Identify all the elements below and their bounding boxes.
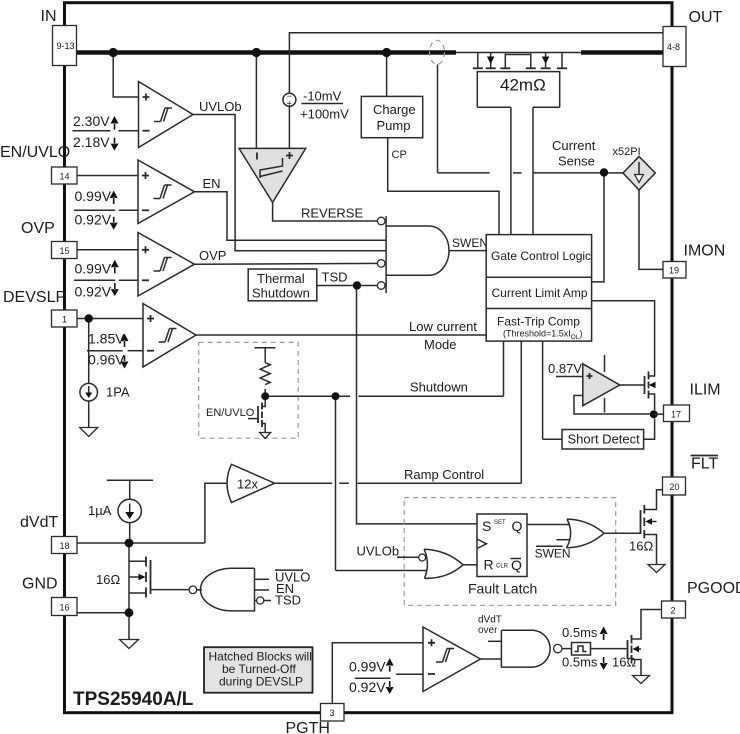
svg-text:0.92V: 0.92V xyxy=(349,679,386,695)
svg-text:UVLOb: UVLOb xyxy=(199,99,242,114)
svg-text:CLR: CLR xyxy=(496,564,509,570)
svg-text:Q: Q xyxy=(512,518,523,534)
svg-text:TSD: TSD xyxy=(322,270,348,285)
svg-text:Fault Latch: Fault Latch xyxy=(468,581,537,597)
svg-text:SWEN: SWEN xyxy=(452,236,488,250)
svg-text:-10mV: -10mV xyxy=(303,89,342,104)
svg-text:EN/UVLO: EN/UVLO xyxy=(206,407,255,419)
svg-text:SET: SET xyxy=(494,520,506,526)
svg-text:DEVSLP: DEVSLP xyxy=(3,289,66,306)
svg-text:IN: IN xyxy=(41,8,57,25)
svg-text:0.5ms: 0.5ms xyxy=(562,655,598,670)
svg-text:0.92V: 0.92V xyxy=(75,283,112,299)
svg-text:Short Detect: Short Detect xyxy=(568,432,641,447)
svg-text:FLT: FLT xyxy=(691,456,718,473)
svg-text:20: 20 xyxy=(670,482,680,492)
svg-text:CP: CP xyxy=(392,149,407,161)
svg-text:OUT: OUT xyxy=(689,9,723,26)
svg-text:PGTH: PGTH xyxy=(286,720,330,734)
svg-text:EN/UVLO: EN/UVLO xyxy=(0,144,70,161)
svg-text:2: 2 xyxy=(671,606,676,616)
svg-text:1: 1 xyxy=(62,315,67,325)
svg-text:Fast-Trip Comp: Fast-Trip Comp xyxy=(497,315,580,329)
svg-text:18: 18 xyxy=(60,541,70,551)
svg-text:1PA: 1PA xyxy=(106,385,130,400)
svg-text:Mode: Mode xyxy=(424,337,457,352)
svg-text:16Ω: 16Ω xyxy=(96,572,120,587)
svg-text:15: 15 xyxy=(60,246,70,256)
svg-text:0.99V: 0.99V xyxy=(349,659,386,675)
svg-text:OVP: OVP xyxy=(21,220,55,237)
svg-text:9-13: 9-13 xyxy=(57,41,75,51)
svg-text:16Ω: 16Ω xyxy=(629,539,653,554)
svg-text:over: over xyxy=(478,625,498,636)
svg-text:+100mV: +100mV xyxy=(300,107,349,122)
svg-text:Thermal: Thermal xyxy=(257,271,305,286)
svg-text:EN: EN xyxy=(203,176,221,191)
svg-text:0.99V: 0.99V xyxy=(75,261,112,277)
svg-text:2.30V: 2.30V xyxy=(73,113,110,129)
svg-text:17: 17 xyxy=(671,410,681,420)
svg-text:dVdT: dVdT xyxy=(478,615,502,626)
svg-text:Shutdown: Shutdown xyxy=(410,380,468,395)
svg-text:Pump: Pump xyxy=(377,118,411,133)
svg-text:during DEVSLP: during DEVSLP xyxy=(219,675,303,689)
svg-text:GND: GND xyxy=(22,576,58,593)
svg-text:1µA: 1µA xyxy=(88,503,112,518)
svg-text:UVLOb: UVLOb xyxy=(357,544,400,559)
svg-text:ILIM: ILIM xyxy=(690,382,721,399)
svg-text:0.87V: 0.87V xyxy=(548,361,582,376)
svg-text:IMON: IMON xyxy=(684,243,726,260)
svg-text:Sense: Sense xyxy=(558,154,595,169)
svg-text:1.85V: 1.85V xyxy=(88,331,125,347)
svg-text:2.18V: 2.18V xyxy=(73,134,110,150)
svg-text:Low current: Low current xyxy=(409,319,477,334)
svg-text:16: 16 xyxy=(60,603,70,613)
svg-text:dVdT: dVdT xyxy=(20,514,58,531)
svg-text:S: S xyxy=(482,518,491,534)
svg-text:4-8: 4-8 xyxy=(667,42,680,52)
svg-text:OVP: OVP xyxy=(199,248,226,263)
svg-text:Current Limit Amp: Current Limit Amp xyxy=(492,286,588,300)
svg-text:Gate Control Logic: Gate Control Logic xyxy=(491,249,591,263)
svg-text:16Ω: 16Ω xyxy=(612,655,636,670)
svg-text:x52PI: x52PI xyxy=(613,146,641,158)
svg-text:Q: Q xyxy=(511,557,522,573)
svg-text:Ramp Control: Ramp Control xyxy=(404,467,484,482)
svg-text:TPS25940A/L: TPS25940A/L xyxy=(73,689,194,710)
svg-text:REVERSE: REVERSE xyxy=(301,206,363,221)
svg-text:SWEN: SWEN xyxy=(535,547,571,561)
svg-text:0.92V: 0.92V xyxy=(75,212,112,228)
svg-text:R: R xyxy=(484,557,494,573)
svg-text:Current: Current xyxy=(552,138,596,153)
svg-text:0.96V: 0.96V xyxy=(88,352,125,368)
svg-text:TSD: TSD xyxy=(275,593,301,608)
svg-text:Shutdown: Shutdown xyxy=(252,286,310,301)
svg-text:42mΩ: 42mΩ xyxy=(500,76,546,95)
svg-text:PGOOD: PGOOD xyxy=(687,580,740,597)
svg-text:3: 3 xyxy=(330,708,335,718)
svg-text:Charge: Charge xyxy=(373,102,416,117)
svg-text:0.5ms: 0.5ms xyxy=(562,625,598,640)
svg-text:12x: 12x xyxy=(237,477,258,492)
svg-text:0.99V: 0.99V xyxy=(75,188,112,204)
svg-text:14: 14 xyxy=(60,172,70,182)
svg-text:19: 19 xyxy=(669,266,679,276)
